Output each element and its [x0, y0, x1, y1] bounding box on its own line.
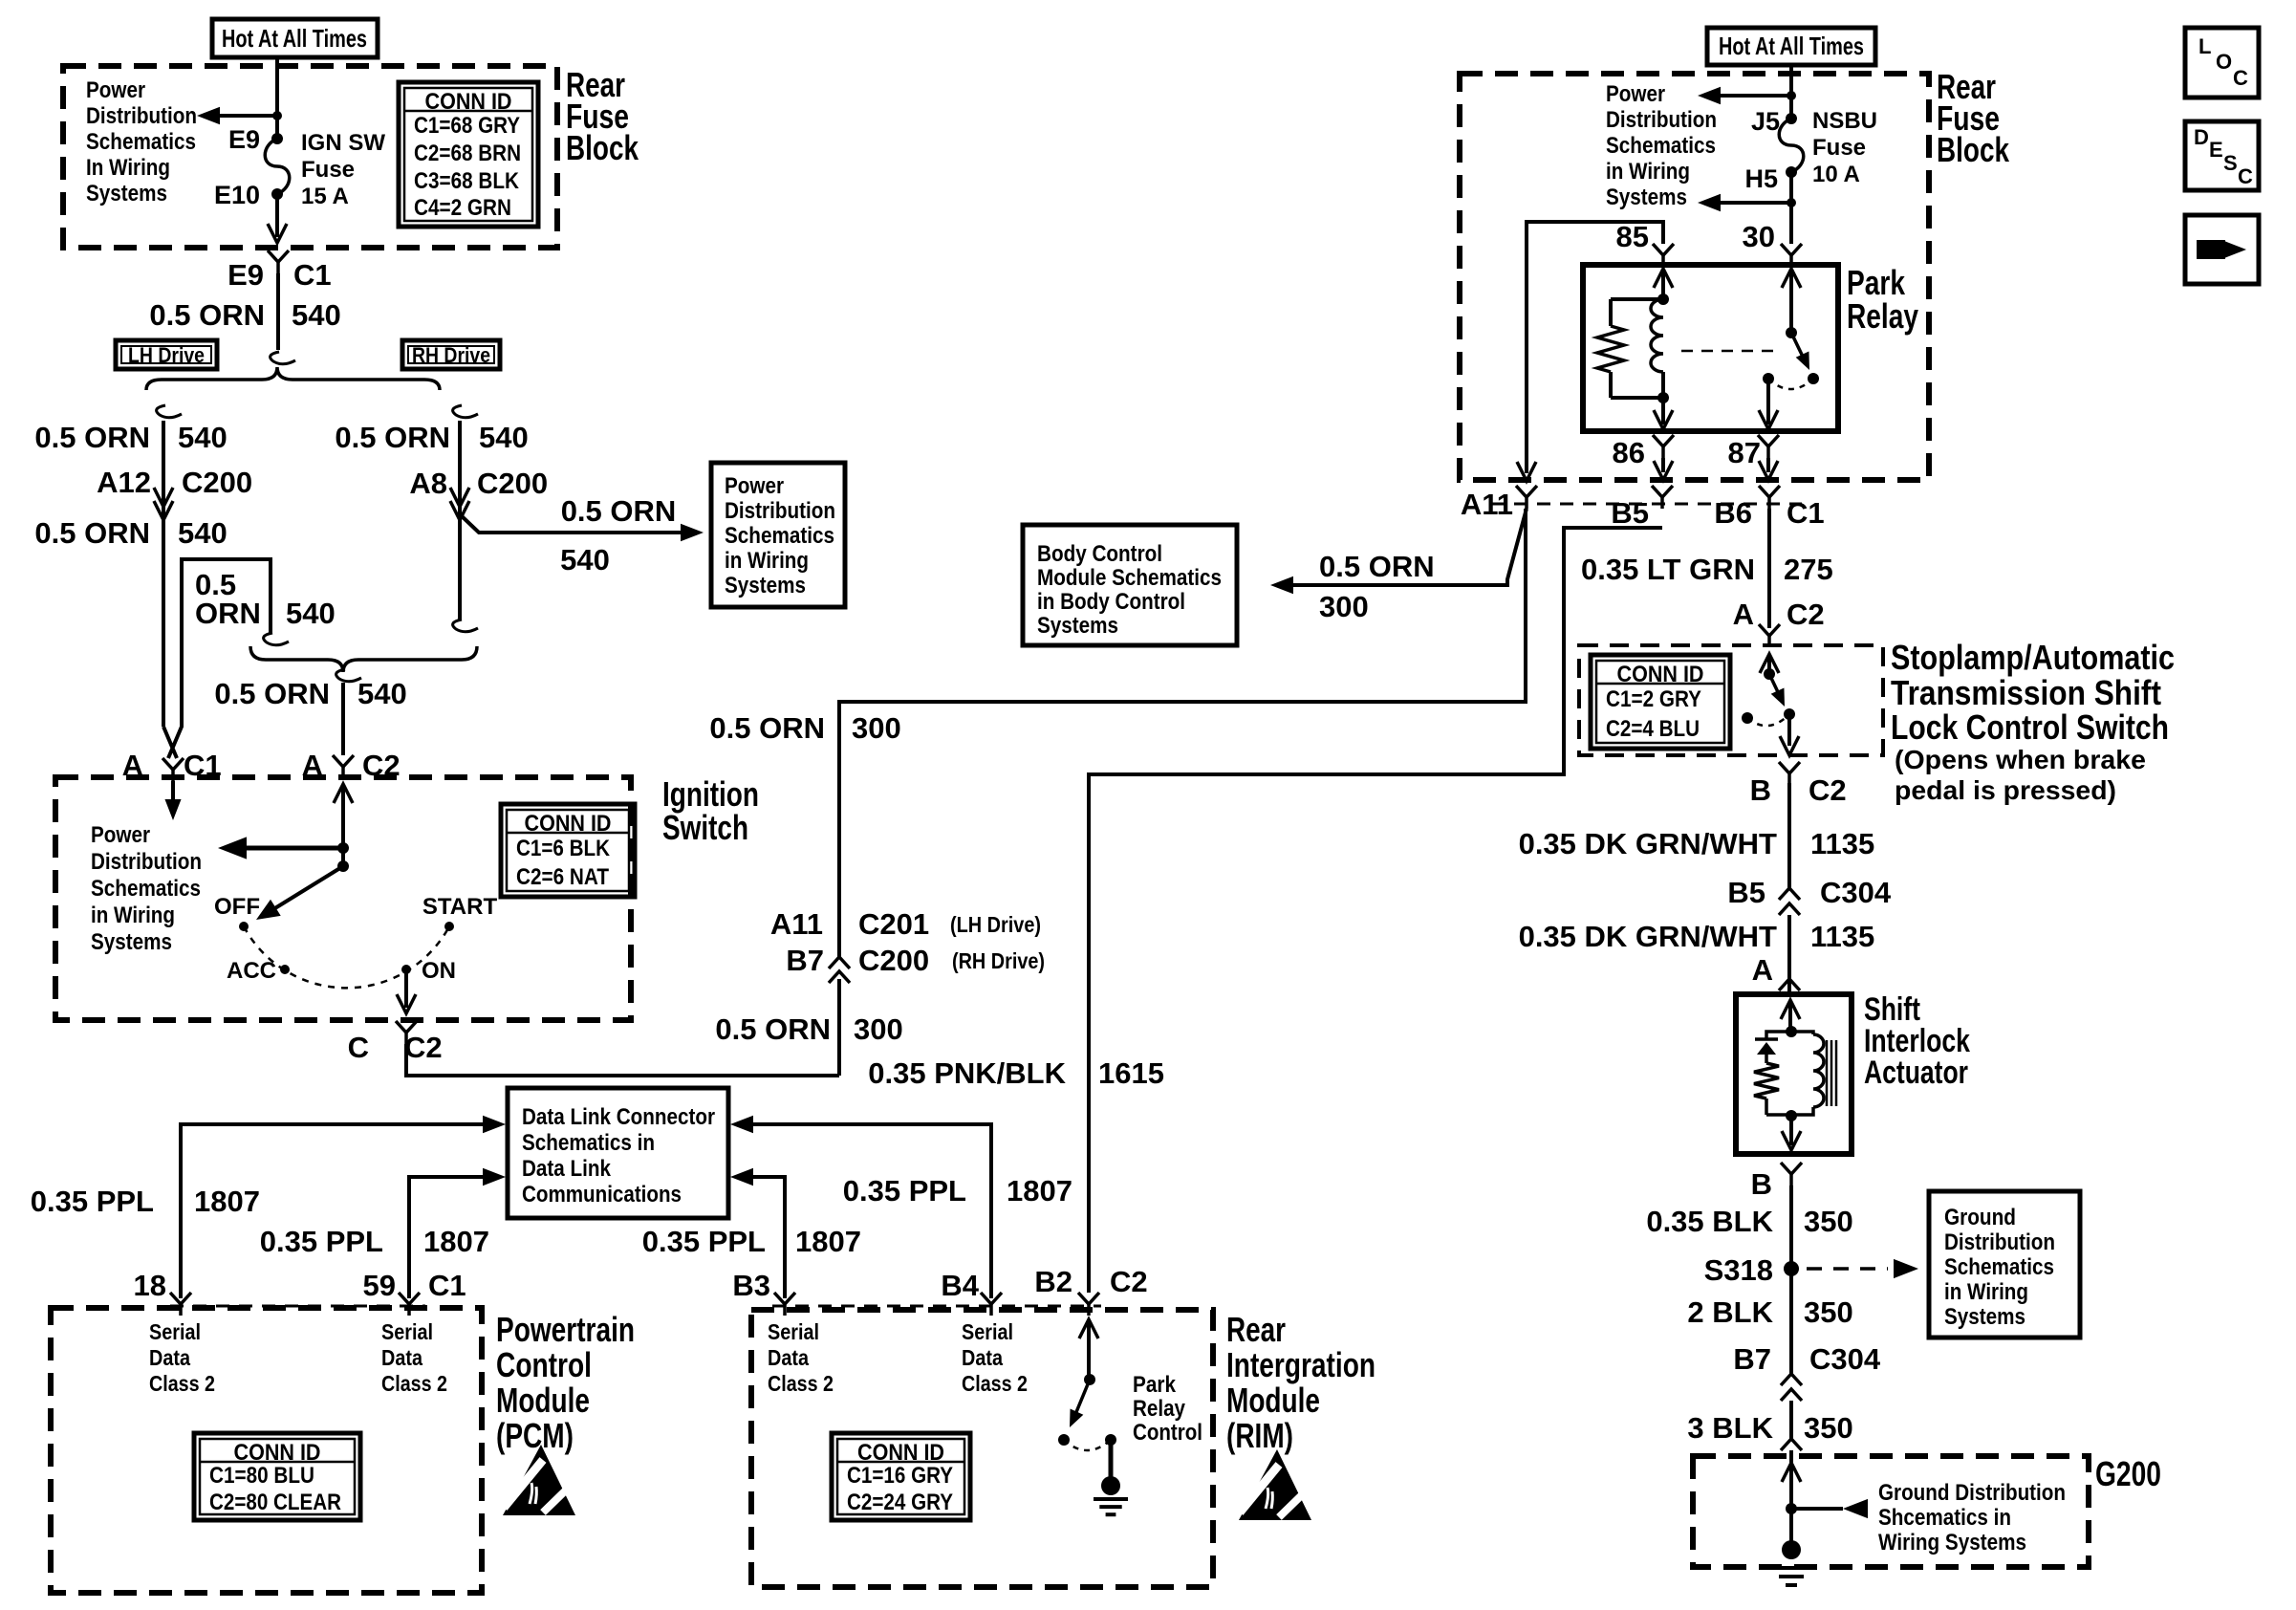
- svg-text:C1=16 GRY: C1=16 GRY: [847, 1463, 953, 1489]
- connector C2 pin A (ignition switch): [333, 755, 354, 767]
- CONN ID table (PCM): C1=80 BLU C2=80 CLEAR: [194, 1433, 360, 1520]
- relay switch branch (pins 30/87): [1782, 269, 1801, 288]
- reference box Power Distribution Schematics in Wiring Systems (mid-left): [711, 463, 845, 607]
- svg-text:B: B: [1751, 1167, 1772, 1201]
- svg-text:C1=68 GRY: C1=68 GRY: [414, 113, 520, 139]
- ESD sensitivity symbol (RIM): [1239, 1449, 1311, 1520]
- svg-text:540: 540: [292, 298, 341, 332]
- svg-text:(Opens when brake: (Opens when brake: [1895, 745, 2146, 774]
- relay coil branch (pins 85/86): [1654, 269, 1673, 288]
- svg-text:540: 540: [479, 421, 529, 454]
- rear fuse block (right) dashed box: [1460, 74, 1929, 480]
- option box LH Drive: [116, 340, 217, 369]
- wire 0.5 ORN 300 from A11 to body control module reference: [1292, 509, 1527, 585]
- svg-text:Fuse: Fuse: [301, 157, 355, 183]
- svg-text:540: 540: [178, 421, 227, 454]
- svg-text:B7: B7: [1733, 1342, 1771, 1376]
- wire 0.35 PPL 1807 from PCM pin 18 to DLC: [181, 1124, 483, 1298]
- svg-text:Park: Park: [1133, 1372, 1177, 1398]
- junction with arrow to power distribution (top): [1787, 91, 1796, 100]
- svg-text:0.5 ORN: 0.5 ORN: [709, 711, 825, 745]
- wire LH branch into ignition switch pin A C1: [163, 727, 177, 758]
- wire relay pin 85 to fuse block edge A11: [1527, 222, 1663, 473]
- contact ON: [401, 965, 411, 974]
- svg-text:Fuse: Fuse: [1812, 135, 1866, 161]
- svg-text:IGN SW: IGN SW: [301, 130, 385, 156]
- wire 0.5 ORN 540 LH branch: [162, 421, 165, 727]
- contact START: [444, 922, 454, 931]
- connector C201(LH)/C200(RH) pins A11/B7: [829, 957, 850, 968]
- relay actuation dashed link: [1681, 350, 1780, 353]
- svg-text:Ground Distribution: Ground Distribution: [1878, 1480, 2066, 1506]
- svg-text:540: 540: [178, 516, 227, 550]
- svg-text:Module: Module: [496, 1381, 590, 1420]
- svg-text:Class 2: Class 2: [381, 1371, 447, 1396]
- svg-text:Class 2: Class 2: [962, 1371, 1028, 1396]
- svg-text:0.35 LT GRN: 0.35 LT GRN: [1581, 553, 1755, 586]
- svg-text:0.5 ORN: 0.5 ORN: [335, 421, 450, 454]
- svg-text:pedal is pressed): pedal is pressed): [1895, 775, 2116, 805]
- svg-text:1135: 1135: [1810, 827, 1874, 860]
- ground symbol (park relay control): [1109, 1440, 1114, 1480]
- svg-text:ORN: ORN: [195, 597, 261, 630]
- svg-text:Switch: Switch: [662, 808, 748, 847]
- svg-text:Actuator: Actuator: [1864, 1055, 1968, 1091]
- svg-text:C2=68 BRN: C2=68 BRN: [414, 141, 521, 166]
- svg-text:Schematics: Schematics: [1606, 133, 1716, 159]
- svg-text:275: 275: [1784, 553, 1833, 586]
- rear fuse block connector face dashed line: [1491, 503, 1802, 506]
- junction with arrow to power distribution (bottom): [1787, 198, 1796, 207]
- svg-text:in Wiring: in Wiring: [1944, 1279, 2028, 1305]
- svg-text:0.35 PPL: 0.35 PPL: [843, 1174, 966, 1207]
- svg-text:Serial: Serial: [962, 1319, 1013, 1344]
- svg-text:Systems: Systems: [1037, 613, 1118, 639]
- svg-text:1615: 1615: [1098, 1056, 1164, 1090]
- svg-text:D: D: [2194, 125, 2209, 149]
- svg-text:Power: Power: [86, 77, 145, 103]
- svg-text:C1: C1: [1787, 496, 1825, 530]
- wire 0.5 ORN 300 from C201/C200 up to rear fuse block A11: [839, 510, 1526, 957]
- PCM dashed box: [51, 1308, 482, 1593]
- svg-text:C201: C201: [858, 907, 929, 941]
- svg-text:540: 540: [357, 677, 407, 710]
- reference box Body Control Module Schematics in Body Control Systems: [1023, 525, 1237, 645]
- svg-text:Control: Control: [496, 1345, 592, 1384]
- connector pin A (shift interlock actuator): [1779, 979, 1800, 990]
- RIM dashed box: [751, 1310, 1213, 1587]
- svg-text:A12: A12: [97, 466, 151, 499]
- svg-text:C4=2 GRN: C4=2 GRN: [414, 195, 511, 221]
- wire 0.35 LT GRN 275 from B6 to stoplamp switch A: [1767, 509, 1771, 628]
- svg-text:C304: C304: [1820, 876, 1892, 909]
- wire pin A C1 entering ignition switch: [171, 781, 175, 805]
- navigation box arrow: [2185, 215, 2259, 284]
- svg-text:O: O: [2216, 50, 2232, 74]
- svg-text:L: L: [2199, 34, 2211, 58]
- svg-text:E9: E9: [228, 125, 260, 154]
- svg-text:Systems: Systems: [725, 573, 806, 598]
- svg-text:Block: Block: [1937, 130, 2010, 169]
- svg-text:300: 300: [854, 1012, 903, 1046]
- wire from Hot At All Times to NSBU fuse: [1789, 65, 1793, 119]
- svg-text:Distribution: Distribution: [86, 103, 197, 129]
- svg-text:G200: G200: [2095, 1454, 2161, 1493]
- svg-text:1807: 1807: [194, 1185, 260, 1218]
- rear fuse block (left) dashed box: [63, 66, 557, 248]
- svg-text:Ground: Ground: [1944, 1205, 2016, 1230]
- contact OFF: [239, 922, 249, 931]
- svg-text:0.35 DK GRN/WHT: 0.35 DK GRN/WHT: [1519, 920, 1777, 953]
- contact ACC: [280, 965, 290, 974]
- option box RH Drive: [402, 340, 500, 369]
- svg-text:in Wiring: in Wiring: [91, 903, 175, 928]
- connector C1 pin A (ignition switch): [162, 758, 184, 770]
- svg-text:540: 540: [560, 543, 610, 577]
- svg-text:In Wiring: In Wiring: [86, 155, 170, 181]
- junction and reference arrow (G200): [1786, 1503, 1797, 1514]
- svg-text:350: 350: [1804, 1205, 1853, 1238]
- svg-text:C: C: [2233, 66, 2248, 90]
- svg-text:B5: B5: [1727, 876, 1765, 909]
- svg-text:85: 85: [1616, 220, 1649, 253]
- svg-text:S318: S318: [1704, 1253, 1773, 1287]
- svg-text:Data Link: Data Link: [522, 1156, 612, 1182]
- wire H5 down to relay pin 30: [1789, 172, 1793, 244]
- svg-text:B4: B4: [941, 1269, 979, 1302]
- svg-text:540: 540: [286, 597, 336, 630]
- svg-text:1135: 1135: [1810, 920, 1874, 953]
- svg-text:C2=6 NAT: C2=6 NAT: [516, 864, 609, 890]
- svg-text:C2: C2: [404, 1031, 443, 1064]
- svg-text:Serial: Serial: [768, 1319, 819, 1344]
- svg-text:Serial: Serial: [149, 1319, 201, 1344]
- svg-text:Power: Power: [725, 473, 784, 499]
- connector pin B5 (fuse block right): [1652, 486, 1673, 497]
- navigation box DESC: [2185, 121, 2259, 190]
- power feed box "Hot At All Times" (right): [1707, 28, 1875, 65]
- wire 0.5 ORN 300 from ignition switch to C201/C200: [406, 1044, 839, 1076]
- svg-text:Hot At All Times: Hot At All Times: [1719, 32, 1864, 60]
- CONN ID table (ignition switch): C1=6 BLK C2=6 NAT: [501, 804, 635, 897]
- svg-text:J5: J5: [1751, 107, 1780, 136]
- svg-text:Power: Power: [1606, 81, 1665, 107]
- junction to power distribution arrow (ignition switch): [337, 842, 349, 854]
- svg-text:300: 300: [852, 711, 901, 745]
- svg-text:(PCM): (PCM): [496, 1416, 574, 1455]
- svg-text:B: B: [1750, 773, 1771, 807]
- svg-text:3 BLK: 3 BLK: [1687, 1411, 1773, 1445]
- wire from A11 down to C201/C200 join: [1524, 509, 1527, 702]
- svg-text:Data: Data: [149, 1345, 190, 1370]
- svg-text:B7: B7: [786, 944, 824, 977]
- RH branch wire continues down to merge brace: [453, 620, 478, 632]
- svg-text:OFF: OFF: [214, 894, 260, 920]
- svg-text:Systems: Systems: [1944, 1304, 2025, 1330]
- svg-text:300: 300: [1319, 590, 1369, 623]
- svg-text:C2: C2: [1787, 598, 1825, 631]
- svg-text:RH Drive: RH Drive: [412, 343, 490, 367]
- svg-text:C1=2 GRY: C1=2 GRY: [1606, 686, 1701, 712]
- svg-text:2 BLK: 2 BLK: [1687, 1295, 1773, 1329]
- svg-text:NSBU: NSBU: [1812, 108, 1877, 134]
- svg-text:Schematics: Schematics: [725, 523, 834, 549]
- stub wire 0.5 ORN 540 joining at ignition switch C1 pin A: [168, 559, 271, 758]
- svg-text:Wiring Systems: Wiring Systems: [1878, 1530, 2026, 1556]
- svg-text:(RH Drive): (RH Drive): [952, 948, 1045, 973]
- svg-text:Data: Data: [768, 1345, 809, 1370]
- svg-text:C200: C200: [477, 467, 548, 500]
- svg-text:Schematics in: Schematics in: [522, 1130, 655, 1156]
- stoplamp switch contacts: [1760, 654, 1779, 673]
- svg-text:0.35 PPL: 0.35 PPL: [260, 1225, 383, 1258]
- svg-text:in Wiring: in Wiring: [1606, 159, 1690, 185]
- svg-text:Systems: Systems: [86, 181, 167, 207]
- connector pin 18 (PCM): [170, 1293, 191, 1304]
- svg-text:0.5 ORN: 0.5 ORN: [214, 677, 330, 710]
- svg-text:0.5 ORN: 0.5 ORN: [34, 516, 150, 550]
- branch wire 0.5 ORN 540 to power distribution box: [460, 514, 682, 533]
- svg-text:B6: B6: [1714, 496, 1752, 530]
- svg-text:A: A: [1733, 598, 1754, 631]
- connector C1 pin E9 below fuse block: [268, 250, 289, 262]
- park relay box: [1583, 265, 1838, 431]
- CONN ID table (stoplamp): C1=2 GRY C2=4 BLU: [1591, 655, 1730, 749]
- svg-text:A11: A11: [1461, 488, 1513, 521]
- svg-text:Data: Data: [962, 1345, 1003, 1370]
- svg-text:Power: Power: [91, 822, 150, 848]
- wire from Hot At All Times to IGN SW fuse: [275, 57, 279, 139]
- svg-text:Module: Module: [1226, 1381, 1320, 1420]
- svg-text:Class 2: Class 2: [149, 1371, 215, 1396]
- svg-text:Control: Control: [1133, 1420, 1202, 1446]
- svg-text:C304: C304: [1809, 1342, 1881, 1376]
- ground G200 dashed box: [1693, 1456, 2089, 1567]
- svg-text:Systems: Systems: [1606, 185, 1687, 210]
- svg-text:0.35 BLK: 0.35 BLK: [1646, 1205, 1773, 1238]
- svg-text:Systems: Systems: [91, 929, 172, 955]
- connector pin A11 (fuse block right): [1516, 486, 1537, 497]
- svg-text:30: 30: [1743, 220, 1775, 253]
- ground symbol G200: [1789, 1509, 1793, 1543]
- wire E10 to fuse block edge: [275, 194, 279, 237]
- svg-text:(RIM): (RIM): [1226, 1416, 1293, 1455]
- svg-text:0.5 ORN: 0.5 ORN: [149, 298, 265, 332]
- svg-text:18: 18: [134, 1269, 166, 1302]
- svg-text:C: C: [2238, 164, 2253, 188]
- svg-text:Block: Block: [566, 128, 639, 167]
- svg-text:Lock Control Switch: Lock Control Switch: [1891, 707, 2169, 747]
- svg-text:Communications: Communications: [522, 1182, 682, 1207]
- svg-text:Relay: Relay: [1133, 1396, 1186, 1422]
- svg-text:C1: C1: [293, 258, 332, 292]
- ignition rotor arm pointing to OFF: [337, 860, 349, 872]
- svg-text:START: START: [422, 894, 498, 920]
- svg-text:Rear: Rear: [1226, 1310, 1286, 1349]
- wire 0.5 ORN 540 into ignition pin A C2: [341, 683, 345, 755]
- svg-text:H5: H5: [1744, 164, 1778, 193]
- svg-text:Class 2: Class 2: [768, 1371, 834, 1396]
- navigation box LOC: [2185, 28, 2259, 98]
- CONN ID table (rear fuse block left): C1=68 GRY C2=68 BRN C3=68 BLK C4=2 GRN: [399, 82, 538, 227]
- connector pin B4 (RIM): [981, 1293, 1002, 1304]
- svg-text:C2=24 GRY: C2=24 GRY: [847, 1490, 953, 1515]
- park relay control switch inside RIM: [1079, 1319, 1098, 1338]
- svg-text:0.35 PPL: 0.35 PPL: [31, 1185, 154, 1218]
- connector C2 pin B2 (RIM): [1078, 1293, 1099, 1304]
- svg-text:Shcematics in: Shcematics in: [1878, 1505, 2011, 1531]
- wire 0.35 PPL 1807 from RIM pin B4 to DLC: [752, 1124, 991, 1298]
- svg-text:0.5 ORN: 0.5 ORN: [715, 1012, 831, 1046]
- svg-text:Transmission Shift: Transmission Shift: [1891, 673, 2161, 712]
- wire 0.35 PPL 1807 from RIM pin B3 to DLC: [752, 1177, 785, 1298]
- svg-text:Body Control: Body Control: [1037, 541, 1162, 567]
- connector C2 pin C (ignition switch output): [396, 1021, 417, 1033]
- svg-text:0.35 PNK/BLK: 0.35 PNK/BLK: [868, 1056, 1066, 1090]
- svg-text:C: C: [348, 1031, 369, 1064]
- svg-text:Distribution: Distribution: [725, 498, 835, 524]
- connector C1 pin B6 (fuse block right): [1759, 486, 1780, 497]
- svg-text:0.5 ORN: 0.5 ORN: [34, 421, 150, 454]
- svg-text:in Wiring: in Wiring: [725, 548, 809, 574]
- svg-text:ACC: ACC: [227, 958, 276, 984]
- svg-text:0.5 ORN: 0.5 ORN: [561, 494, 677, 528]
- svg-text:1807: 1807: [1007, 1174, 1072, 1207]
- svg-text:350: 350: [1804, 1411, 1853, 1445]
- svg-text:Hot At All Times: Hot At All Times: [222, 24, 367, 53]
- svg-text:0.35 DK GRN/WHT: 0.35 DK GRN/WHT: [1519, 827, 1777, 860]
- svg-text:Schematics: Schematics: [86, 129, 196, 155]
- connector pin B (shift interlock actuator): [1781, 1163, 1802, 1174]
- svg-text:1807: 1807: [795, 1225, 861, 1258]
- svg-text:C200: C200: [858, 944, 929, 977]
- svg-text:A8: A8: [409, 467, 447, 500]
- svg-text:350: 350: [1804, 1295, 1853, 1329]
- svg-text:LH Drive: LH Drive: [128, 343, 205, 367]
- connector pin B3 (RIM): [774, 1293, 795, 1304]
- connector C2 pin B (stoplamp switch): [1779, 762, 1800, 773]
- svg-text:C1=80 BLU: C1=80 BLU: [209, 1463, 314, 1489]
- svg-text:Schematics: Schematics: [1944, 1254, 2054, 1280]
- svg-text:Powertrain: Powertrain: [496, 1310, 635, 1349]
- svg-text:B2: B2: [1034, 1265, 1072, 1298]
- svg-text:C200: C200: [182, 466, 252, 499]
- svg-text:Distribution: Distribution: [1606, 107, 1717, 133]
- svg-text:Distribution: Distribution: [91, 849, 202, 875]
- CONN ID table (RIM): C1=16 GRY C2=24 GRY: [832, 1433, 970, 1520]
- svg-text:86: 86: [1613, 436, 1645, 469]
- svg-text:S: S: [2223, 151, 2238, 175]
- svg-text:E: E: [2209, 138, 2223, 162]
- svg-text:Module Schematics: Module Schematics: [1037, 565, 1222, 591]
- svg-text:B3: B3: [732, 1269, 770, 1302]
- junction on E9 feed with arrow to power distribution: [272, 111, 282, 120]
- svg-text:0.35 PPL: 0.35 PPL: [642, 1225, 766, 1258]
- svg-text:Stoplamp/Automatic: Stoplamp/Automatic: [1891, 638, 2175, 677]
- merge brace into ignition switch pin A C2: [250, 646, 477, 672]
- reference box Ground Distribution Schematics in Wiring Systems (right): [1929, 1191, 2080, 1338]
- split brace of wire 540 to LH and RH branches: [271, 352, 295, 364]
- wire 0.5 ORN 540 from fuse block to LH/RH split: [276, 273, 280, 350]
- PCM connector face dashed line: [170, 1305, 425, 1308]
- shift interlock actuator box: [1736, 994, 1852, 1154]
- ignition switch dashed box: [55, 777, 631, 1020]
- svg-text:59: 59: [363, 1269, 396, 1302]
- svg-text:Schematics: Schematics: [91, 876, 201, 902]
- wire 0.35 BLK 350 actuator to S318: [1789, 1186, 1793, 1269]
- wire 0.35 PNK/BLK 1615 from rear fuse block B5 to RIM B2: [1089, 528, 1662, 1293]
- svg-text:Intergration: Intergration: [1226, 1345, 1375, 1384]
- svg-text:Relay: Relay: [1847, 296, 1918, 336]
- svg-text:Data: Data: [381, 1345, 422, 1370]
- svg-text:C3=68 BLK: C3=68 BLK: [414, 168, 520, 194]
- wire 0.35 PPL 1807 from PCM pin 59 C1 to DLC: [409, 1177, 483, 1298]
- svg-text:E9: E9: [227, 258, 264, 292]
- ESD sensitivity symbol (PCM): [503, 1445, 575, 1515]
- svg-text:(LH Drive): (LH Drive): [950, 912, 1041, 937]
- svg-text:A: A: [1752, 953, 1773, 987]
- svg-text:Serial: Serial: [381, 1319, 433, 1344]
- svg-text:1807: 1807: [423, 1225, 489, 1258]
- svg-text:15 A: 15 A: [301, 184, 349, 209]
- svg-text:Data Link Connector: Data Link Connector: [522, 1104, 715, 1130]
- connector C2 pin A (stoplamp switch): [1759, 624, 1780, 636]
- svg-text:10 A: 10 A: [1812, 162, 1860, 187]
- svg-text:B5: B5: [1611, 496, 1649, 530]
- stoplamp shift lock control switch dashed box: [1579, 645, 1883, 755]
- wire 0.5 ORN 540 RH branch: [458, 421, 462, 620]
- svg-text:C1: C1: [428, 1269, 466, 1302]
- svg-text:Distribution: Distribution: [1944, 1229, 2055, 1255]
- wire 0.35 DK GRN/WHT 1135 stoplamp to C304: [1787, 783, 1791, 888]
- svg-text:C2=80 CLEAR: C2=80 CLEAR: [209, 1490, 341, 1515]
- svg-text:C2: C2: [1809, 773, 1847, 807]
- connector C1 pin 59 (PCM): [399, 1293, 420, 1304]
- svg-text:C1=6 BLK: C1=6 BLK: [516, 836, 611, 861]
- RIM connector face dashed line: [772, 1305, 1101, 1308]
- reference box Data Link Connector Schematics in Data Link Communications: [508, 1088, 728, 1218]
- actuator coil and suppression: [1781, 1000, 1800, 1019]
- svg-text:A11: A11: [770, 907, 823, 941]
- wire from ON contact out of ignition switch: [404, 969, 408, 1008]
- svg-text:ON: ON: [422, 958, 456, 984]
- svg-text:in Body Control: in Body Control: [1037, 589, 1185, 615]
- power feed box "Hot At All Times" (left): [212, 19, 378, 57]
- svg-text:C2: C2: [1110, 1265, 1148, 1298]
- wire 2 BLK 350 from S318 to C304 B7: [1789, 1269, 1793, 1374]
- svg-text:87: 87: [1728, 436, 1761, 469]
- svg-text:0.5 ORN: 0.5 ORN: [1319, 550, 1435, 583]
- svg-text:E10: E10: [214, 181, 260, 209]
- svg-text:C2=4 BLU: C2=4 BLU: [1606, 716, 1700, 742]
- detent arc OFF-ACC-ON-START: [244, 926, 449, 988]
- ignition switch feed wire from pin A: [334, 784, 353, 803]
